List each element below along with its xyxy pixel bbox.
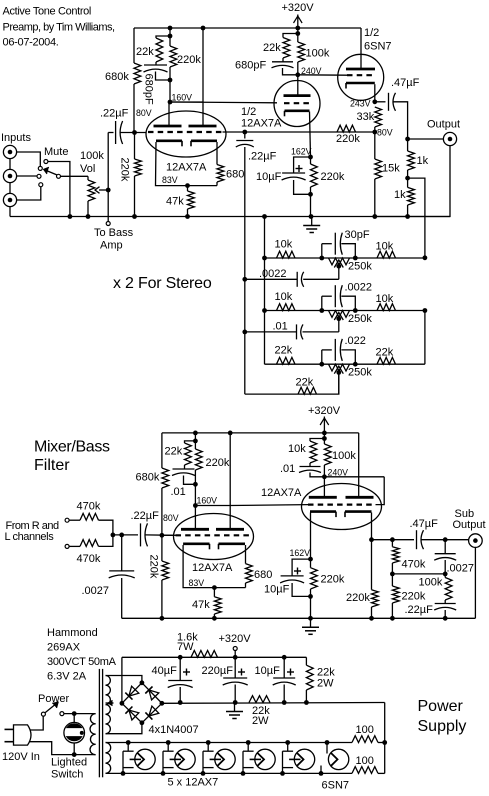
label 22k row3 left [275,345,293,357]
wire 220k no8 bottom [391,603,393,618]
wire coupling row2 left part [245,331,297,333]
label 250k row3 [348,367,372,379]
wire row1 box left [321,244,323,258]
mixer rail dots [193,431,327,436]
svg-text:100k: 100k [306,48,330,60]
svg-text:10k: 10k [376,293,394,305]
tube V5 right cathode [345,512,372,517]
resistor 100 no2 [352,767,378,774]
wire .22uF no1 to grid [120,132,146,134]
svg-text:47k: 47k [192,599,210,611]
wire input R lead [69,519,80,521]
resistor 47k no1 [188,191,195,209]
svg-text:Mixer/Bass: Mixer/Bass [34,439,110,456]
label 22k no2 [263,42,281,54]
resistor 220k no8 [392,586,399,603]
svg-text:12AX7A: 12AX7A [261,487,302,499]
dot heater 4 top [246,740,251,745]
resistor 470k no3 [392,547,399,563]
label Power switch [38,693,70,705]
svg-text:22k: 22k [376,347,394,359]
wire 220k no5 bottom [194,470,196,506]
svg-text:470k: 470k [402,559,426,571]
wire 220k no7 top [371,540,373,590]
input jack 3 [3,193,16,206]
svg-text:.022: .022 [345,335,366,347]
label 22k row3 right [376,347,394,359]
label Hammond [47,627,98,639]
wire 10uF no1 bottom loop [294,180,311,194]
label 1.6k [177,632,198,644]
tube V2 envelope [274,81,320,127]
resistor 10k row1 right [377,251,396,258]
wire V1 cathode box left-bottom [156,142,218,186]
label 160V no2 [197,496,218,506]
wire +320V rail top [134,27,361,29]
svg-text:.22µF: .22µF [405,604,434,616]
wire tone signal vertical [244,147,246,394]
wire to .22uF no1 [108,132,113,134]
label From R and [6,520,59,532]
capacitor .022 row3 [335,339,342,361]
label 15k [382,163,400,175]
wire 680k bottom to grid node [133,84,135,133]
resistor 15k [375,159,382,179]
label .01 coupling [273,320,288,332]
label 100k no1 [306,48,330,60]
svg-text:.01: .01 [171,486,186,498]
dot 10uF no2 bottom [308,594,313,599]
heater 5 leads [283,743,294,774]
wire jack1 to selector [17,152,41,166]
label 10k row1 right [376,241,394,253]
svg-text:Active Tone Control: Active Tone Control [3,6,92,18]
label 680 no1 [226,169,244,181]
wire row2 box top left [322,295,332,297]
label 680pF no1 [143,74,155,105]
wire V5 right plate to rail [358,433,360,497]
wire 220k no5 top [194,433,196,449]
svg-text:+320V: +320V [219,633,252,645]
wire row1 box top left [322,243,332,245]
svg-text:.0022: .0022 [345,282,373,294]
svg-text:12AX7A: 12AX7A [192,562,233,574]
wire pole to volume pot [61,175,89,177]
label 470k bottom [77,553,101,565]
resistor 10k no3 [310,441,317,463]
dots mixer output line [369,537,448,542]
wire 22k 2W no1 bottom [305,690,307,703]
resistor 1k no2 [408,187,415,205]
svg-text:+320V: +320V [281,2,314,14]
wire V1 left plate lead [168,102,170,126]
wire heater rail top [106,742,353,744]
dot heater 2 top [166,740,171,745]
svg-text:250k: 250k [348,367,372,379]
dot 10k tee [322,436,327,441]
wire row2 box right [341,296,355,310]
label 220k no6 [321,574,345,586]
capacitor .0022 row2 [335,285,342,307]
dots on mixer 220k branch [193,439,198,508]
label .022 [345,335,366,347]
wire tone row 3 [265,363,425,365]
svg-text:10µF: 10µF [264,584,290,596]
svg-text:2W: 2W [317,678,334,690]
wire HV top to bridge [106,676,142,683]
wire tone right vertical lower [424,311,426,365]
wire V4 cathode right drop [245,545,247,564]
label 47k no1 [166,196,184,208]
label 10k row2 right [376,293,394,305]
wire feedback line [223,131,376,133]
tube V1 right plate [189,125,217,128]
wire row1 box right [341,244,355,258]
resistor 10k row2 left [277,304,296,311]
power switch lever [45,702,58,713]
label 6.3V 2A [47,671,87,683]
resistor 220k no5 [195,449,202,470]
dot wiper row2 [336,316,341,321]
tube V1 grid dashes [148,131,222,133]
label 100 no2 [356,755,374,767]
dot wiper node [106,188,111,193]
resistor 680k [134,63,141,84]
heater 3 leads [203,743,214,774]
svg-text:47k: 47k [166,196,184,208]
label 100k Vol value [80,150,104,162]
svg-text:Power: Power [418,698,464,715]
wire 220uF top [234,657,236,678]
svg-text:15k: 15k [382,163,400,175]
wire 680k no2 bottom [161,488,163,535]
label Sub [455,508,475,520]
tube V3 6SN7 envelope [338,54,384,100]
resistor 470k no1 [80,513,99,520]
label Output sub [453,519,486,531]
wire pot bottom to ground [87,201,89,217]
wire V5 left cathode down [310,513,312,560]
tube V2 plate [284,94,311,97]
transformer core [99,669,102,777]
wiper arrow 250k row2 [334,313,343,332]
capacitor .22uF no3 [141,523,148,546]
wire 220k mixer cath top [310,559,312,568]
dot 243V node [372,99,377,104]
svg-text:33k: 33k [357,111,375,123]
label .0027 no1 [82,585,110,597]
svg-text:220µF: 220µF [202,665,234,677]
transformer LV secondary [106,742,111,773]
label 680pF no2 [235,60,266,72]
bridge corner dots [120,680,165,725]
tube V4 left cathode [183,544,209,550]
wire plug bottom to primary [30,742,96,755]
dots row1 box [319,256,357,261]
PSU ground bus dots [178,700,309,705]
tube V2 cathode [285,111,310,117]
label +320V no2 [308,405,341,417]
tone ground vertical dots [262,256,267,313]
dots row2 box [319,308,357,313]
tube V4 right cathode [219,544,246,550]
dot 240V no2 [322,474,327,479]
wire to lamp top [73,714,75,723]
potentiometer 250k row3 [329,364,350,371]
capacitor .0027 no2 [434,554,456,561]
label 100k no2 [332,450,356,462]
svg-text:06-07-2004.: 06-07-2004. [3,37,59,49]
wire 220k no7 bottom [371,607,373,618]
resistor 220k no6 [311,568,318,589]
label 470k no3 [402,559,426,571]
svg-text:1/2: 1/2 [241,106,256,118]
label Filter [34,457,70,474]
heater 1 lamp [130,749,156,769]
terminal +320V psu [233,647,237,651]
wire V1 cathode right drop [216,142,218,165]
label 100k no3 [419,577,443,589]
label .01 no2 [280,463,295,475]
wire row3 box top left [322,349,332,351]
svg-text:100k: 100k [80,150,104,162]
label .22uF no3 [131,510,160,522]
wire 100k no1 bottom to plate [297,62,299,96]
dots mixer input node [111,533,125,538]
switch pole [57,174,61,178]
label 300VCT 50mA [47,656,117,668]
svg-text:7W: 7W [177,641,194,653]
heater 1 leads [123,743,134,774]
svg-text:160V: 160V [172,93,193,103]
wire output line [408,138,444,140]
diode D1 [125,686,139,699]
tube V3 plate [346,68,375,71]
svg-text:.0022: .0022 [259,268,287,280]
svg-text:.0027: .0027 [82,585,110,597]
svg-text:Filter: Filter [34,457,70,474]
svg-text:Output: Output [427,119,460,131]
resistor 47k no2 [214,597,221,614]
dot 0027 bottom [443,572,448,577]
wire link 470k-0027 [392,573,445,575]
heater 2 leads [163,743,174,774]
svg-text:22k: 22k [296,377,314,389]
svg-text:Mute: Mute [44,146,68,158]
wire to .47uF no1 [375,101,386,103]
label 220k no4 [321,171,345,183]
wire V2 cathode down [310,112,311,158]
wire jack3 to ground rail [9,207,11,217]
label 220k no5 [206,457,230,469]
svg-text:680k: 680k [136,472,160,484]
switch contact in1 [38,166,42,170]
wire V4 cathode box [183,545,245,588]
tube V5 right plate [346,496,374,499]
resistor 10k row1 left [277,251,296,258]
label 220k no3 [336,133,360,145]
label 47k no2 [192,599,210,611]
wire switch to primary [64,713,96,715]
svg-text:470k: 470k [77,553,101,565]
label 22k no5 [165,446,183,458]
wire 680pF no2 to 240V [283,68,298,75]
label 22k 2W no1b [317,678,334,690]
resistor 1k no1 [408,151,415,170]
switch contact in2 [37,174,41,178]
label 10k row2 left [275,291,293,303]
svg-text:.47µF: .47µF [410,518,439,530]
svg-text:22k: 22k [275,345,293,357]
svg-text:.22µF: .22µF [100,108,129,120]
resistor 22k row3 right [377,357,396,364]
tube V1 envelope [146,111,226,157]
tube V4 right plate [216,528,244,531]
svg-text:Switch: Switch [51,769,83,781]
label 80V no1 [136,108,152,118]
tube V3 grid dashes [347,74,375,76]
svg-text:Amp: Amp [100,240,123,252]
resistor 22k no2 [283,38,290,59]
capacitor 680pF no1 [144,65,168,72]
dot 6SN7 heater bottom [319,771,324,776]
tube V4 left plate [181,528,209,531]
wire node to .22uF no3 [113,534,138,536]
tube V1 left cathode [156,141,182,147]
resistor 1.6k 7W [191,651,218,658]
dot 10uF bottom [308,192,313,197]
resistor 220k no4 [311,164,318,187]
label .0027 no2 [447,563,475,575]
dot lighted switch tee [72,711,77,716]
heater 4 leads [243,743,254,774]
wire +320V terminal [234,651,236,658]
dot 162V no2 [308,557,313,562]
svg-text:12AX7A: 12AX7A [241,118,282,130]
label 10k no3 [288,443,306,455]
label .22uF no2 [248,151,277,163]
dot output line [405,137,410,142]
capacitor .0027 no1 [109,571,135,578]
wire 100 no1 link [378,742,385,744]
center tap arrow [106,700,114,705]
wire 240V no2 to V5 right grid [324,476,384,478]
potentiometer 250k row2 [329,311,350,318]
title line 1 [3,6,92,18]
dot wiper row3 [336,370,341,375]
wire 15k bottom [374,179,376,217]
svg-text:10k: 10k [275,239,293,251]
wire .22uF no2 top lead [244,132,246,139]
wire PSU rail [122,656,307,658]
input jack 1 [3,145,16,158]
wire ground rail top section [10,216,450,218]
svg-text:.22µF: .22µF [248,151,277,163]
dots row3 box [319,362,357,367]
junction dots on top rail [168,26,301,31]
svg-text:220k: 220k [336,133,360,145]
svg-text:22k: 22k [165,446,183,458]
resistor 100 no1 [352,736,378,743]
tube V5 envelope [302,484,382,530]
label 680k [105,71,129,83]
resistor 33k [375,107,382,127]
svg-text:6SN7: 6SN7 [322,780,350,792]
wire 10uF no1 top loop [294,157,311,173]
svg-text:680: 680 [226,169,244,181]
dot heater 5 bottom [280,771,285,776]
label 120V In [2,751,40,763]
svg-text:+320V: +320V [308,405,341,417]
label 1k no1 [417,155,429,167]
label Lighted [51,757,87,769]
label 243V [350,99,371,109]
label .0022 [345,282,373,294]
svg-text:100: 100 [356,755,374,767]
tube V4 envelope [174,514,254,560]
wire 100k no2 top [323,433,325,444]
label 680k no2 [136,472,160,484]
diode D3 [145,687,159,700]
wire 10uF psu top [283,657,285,678]
wire V4 plate to V5 grid [230,504,308,507]
wire .0027 no2 top [444,540,446,554]
wire 680k top [133,28,135,63]
svg-text:22k: 22k [263,42,281,54]
wire ground rail mixer [122,617,476,619]
wire 240V to 6SN7 grid [298,74,347,76]
wire coupling row1 left part [245,278,297,280]
wire 100k no1 top [297,28,299,42]
label .01 no3 [171,486,186,498]
svg-text:269AX: 269AX [47,642,81,654]
label 220k no5b rotated [148,555,160,579]
supply arrow +320V top [294,15,303,29]
svg-text:220k: 220k [148,555,160,579]
label .22uF no4 [405,604,434,616]
dot mixer grid node [160,533,165,538]
label 269AX [47,642,81,654]
label 220k no1 [177,54,201,66]
svg-text:83V: 83V [189,578,205,588]
output jack [443,132,456,145]
node grid1 dot [132,130,137,135]
resistor 22k 2W no2 [249,696,270,703]
wire 220k no5b bottom [161,580,163,618]
dot heater 5 top [285,740,290,745]
wire 100k no3 top [444,574,446,578]
label 6SN7 heater [322,780,350,792]
wire mixer output line left [372,539,415,541]
label 10uF psu [255,665,281,677]
svg-text:1k: 1k [417,155,429,167]
wire row3 box left [321,350,323,364]
label 10uF no2 [264,584,290,596]
switch contact mute [44,160,48,164]
wire lamp bottom [73,743,75,755]
label .0022 coupling [259,268,287,280]
svg-text:.01: .01 [280,463,295,475]
capacitor .0022 row1 coupling [297,272,304,287]
svg-text:.01: .01 [273,320,288,332]
svg-text:22k: 22k [136,46,154,58]
svg-text:40µF: 40µF [152,665,178,677]
diode D2 [125,707,138,721]
ground symbol PSU [226,703,243,719]
label 240V no2 [328,468,349,478]
svg-text:30pF: 30pF [345,229,370,241]
label 220uF [202,665,234,677]
